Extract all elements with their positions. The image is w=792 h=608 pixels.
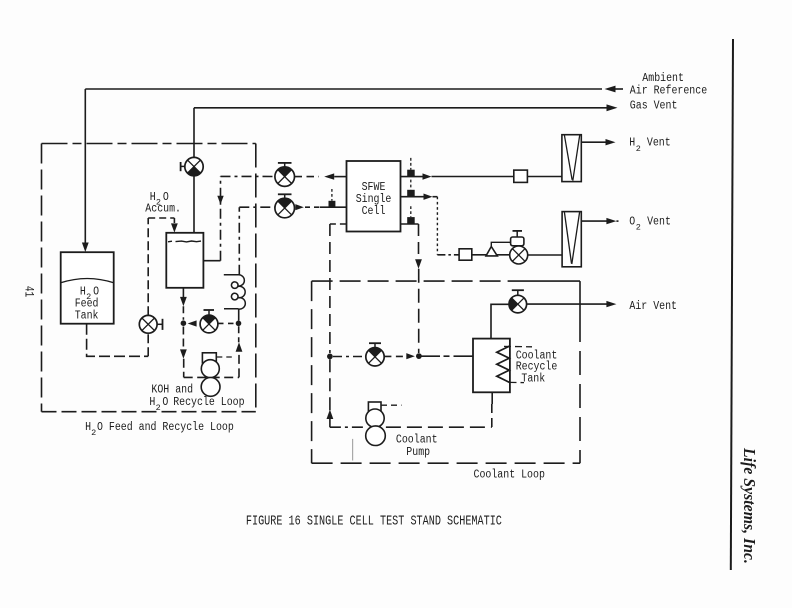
arrow left into junction D1 from valve V5 [188,320,197,326]
wire KOH riser from junction D2 down [238,326,240,342]
svg-text:2: 2 [636,144,641,154]
control stem S4 (dashed) [331,189,333,201]
svg-text:Tank: Tank [75,310,99,323]
arrow down into accumulator [171,223,178,232]
wire KOH feed line to valve V3 (dash-dot) [239,206,275,208]
wire valve V1 to accumulator top [193,176,195,233]
wire coolant left riser below junction [329,359,331,427]
wire coolant down line (long dash with arrow) [418,224,420,260]
wire down to junction D1 (dashed) [182,306,184,320]
arrow air vent [606,301,616,307]
svg-text:H: H [149,396,155,409]
svg-text:FIGURE 16 SINGLE CELL TEST ST: FIGURE 16 SINGLE CELL TEST STAND SCHEMAT… [246,515,502,530]
wire H2 line to filter F1 [432,176,514,178]
leader dashes to tank label [504,345,532,347]
svg-text:2: 2 [91,428,96,438]
solenoid valve S1 on H2 outlet [407,170,415,177]
H2O feed and recycle loop dashed box [42,144,256,412]
filter F1 [514,170,528,182]
right margin rule [731,39,733,570]
wire pump discharge line (dashed) [386,426,492,428]
svg-text:KOH and: KOH and [151,384,193,397]
regulator pilot line to bonnet [491,242,510,246]
artifact faint vertical mark [352,439,354,461]
wire regulator to rotameter R2 [528,254,562,256]
coolant tank internal coil (zigzag) [497,346,510,382]
valve V5 KOH recycle valve (top wedge filled, handle top) [200,310,218,333]
svg-text:2: 2 [636,223,641,233]
svg-text:H: H [629,136,635,149]
node D3 junction on coolant supply [327,354,333,360]
wire valve V3 to SFWE cell [305,206,320,208]
valve V7 air vent valve (left wedge filled, handle top) [509,290,527,313]
svg-text:Pump: Pump [406,446,430,459]
arrow ambient (points left) [605,86,616,93]
wire junction D2 up to coil [238,309,240,321]
wire filter F1 to rotameter R1 [527,176,562,178]
valve V1 gas vent valve (bottom wedge filled, handle left) [181,157,204,175]
svg-text:Accum.: Accum. [145,203,181,216]
solenoid valve S4 on KOH inlet [329,201,336,207]
arrow down on coolant out line [415,259,422,269]
svg-text:Recycle: Recycle [516,360,558,373]
wire valve V5 to junction D2 (dashed) [218,322,235,324]
coolant loop dashed box [312,281,580,463]
svg-text:Ambient: Ambient [642,72,684,85]
KOH pump P1 [201,353,220,397]
arrow H2 vent [606,139,616,145]
node D1 junction [181,320,187,326]
wire rotameter R1 to H2 vent arrow [581,141,606,143]
H2O accumulator tank [166,233,203,288]
svg-text:O: O [97,421,103,434]
rotameter R2 (O2) [562,212,581,267]
wire vertical feed line from ambient line to H2O feed tank [84,89,86,244]
coolant pump P2 [366,402,386,446]
regulator valve V8 (bonnet, stem, body) [510,231,528,264]
arrow O2 vent [606,218,616,224]
wire rotameter R2 to O2 vent arrow [581,220,607,222]
control stem S1 [410,158,412,170]
wire dashed over to accumulator inlet [148,217,174,219]
wire KOH riser right side (dashed up from pump loop) [238,353,240,378]
node D4 junction at tank inlet [416,353,422,359]
wire junction D4 to coolant recycle tank [422,355,441,357]
wire O2 line to filter F2 (dash-dot) [437,254,459,256]
wire valve V6 to junction D4 (dashed with right arrow) [384,355,406,357]
arrow down into feed tank [82,243,89,253]
svg-text:Tank: Tank [521,373,545,386]
arrow up on KOH riser [236,342,243,352]
svg-text:Air Vent: Air Vent [629,300,677,313]
wire junction D1 down to pump loop (dashed, arrow down) [182,327,184,350]
wire coolant down to junction D4 [418,269,420,353]
valve V3 KOH feed valve (top wedge filled, handle top) [275,194,295,218]
wire H2 line from cell port 1 [401,176,423,178]
wire O2 line corner down (fine dash) [433,196,438,198]
back-pressure regulator pilot triangle [486,247,497,256]
wire valve V6 branch line (dash-dot from junction D3) [333,356,366,358]
control stub coolant pump (dashed) [381,404,402,406]
wire tank bottom drop to pump return [491,392,493,404]
svg-text:41: 41 [22,286,37,297]
wire coolant out from cell port 3 [401,223,419,225]
svg-text:Air Reference: Air Reference [630,84,707,97]
valve V4 feed valve (open, handle right) [139,315,162,333]
node D2 junction [236,321,242,327]
wire riser up to H2/water return line (dash-dot) [220,176,222,260]
wire feed tank bottom outlet (dashed) [87,324,149,357]
svg-text:O: O [162,396,168,409]
wire coil top up to KOH feed line (dash-dot) [238,207,240,275]
wire filter F2 to regulator [472,254,510,256]
svg-text:Single: Single [356,193,392,206]
valve V2 cell water return valve (top wedge filled, handle top) [275,163,295,187]
wire accumulator right port to riser [203,260,220,262]
arrow right on O2 line [424,194,433,200]
wire valve V2 to SFWE cell (dashed with left arrow) [295,176,320,178]
svg-text:Vent: Vent [647,136,671,149]
filter F2 [459,249,472,260]
wire pump loop bottom horizontal (dashed) [184,376,239,378]
control stub KOH pump (dashed) [216,356,232,358]
wire air vent valve to arrow [527,303,608,305]
svg-text:Gas Vent: Gas Vent [630,100,678,113]
SFWE single cell box [347,161,401,232]
wire tank top to air vent valve V7 [491,304,509,338]
arrow up on coolant left riser [327,410,334,420]
wire gas vent vertical down to valve V1 [193,108,195,158]
wire corner down to pump suction level [183,359,185,378]
wire riser from feed line up through valve V4 [147,333,149,356]
arrow right after valve V3 [295,204,304,210]
svg-text:Feed and Recycle Loop: Feed and Recycle Loop [109,421,234,434]
solenoid valve S3 on coolant outlet [407,217,415,224]
wire gas vent horizontal [194,107,607,109]
H2O feed tank [61,252,114,324]
arrow right on H2 line [423,173,432,179]
svg-text:Coolant: Coolant [396,434,438,447]
wire O2 line from cell port 2 [401,196,424,198]
control stem S3 [410,206,412,217]
svg-text:Coolant Loop: Coolant Loop [474,468,545,481]
arrow down on accumulator outlet [180,297,187,306]
control stem S2 [410,180,412,190]
svg-text:Vent: Vent [647,215,671,228]
wire pump suction line (dash-dot) [330,426,365,428]
wire ambient air reference horizontal [85,88,602,90]
wire return line to valve V2 (dash-dot) [221,175,275,177]
wire coolant supply from cell left port (dashed) [330,223,347,225]
arrow gas vent (points right) [607,104,618,111]
heater coil in KOH line [224,275,246,309]
solenoid valve S2 on O2 outlet [407,190,415,197]
arrow down on return riser [217,196,223,205]
wire ambient stub after arrowhead [615,88,624,90]
accumulator water level scribble [168,240,201,243]
svg-text:Life Systems, Inc.: Life Systems, Inc. [740,447,759,564]
valve V6 coolant valve (top wedge filled, handle top) [366,343,384,366]
wire accumulator bottom outlet [182,288,184,298]
svg-text:Recycle Loop: Recycle Loop [173,396,244,409]
svg-text:O: O [629,215,635,228]
coolant recycle tank [473,339,510,393]
svg-text:2: 2 [156,403,161,413]
svg-text:Cell: Cell [362,205,386,218]
rotameter R1 (H2) [562,135,581,182]
